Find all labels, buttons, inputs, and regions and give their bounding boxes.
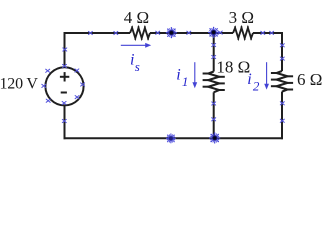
handle marks left branch	[63, 48, 67, 51]
current arrow i_s	[121, 43, 151, 48]
wire right-bottom	[281, 92, 283, 140]
svg-text:1: 1	[182, 74, 189, 89]
handle marks right branch	[280, 44, 284, 47]
current arrow i_1	[192, 62, 197, 88]
resistor R3 18-ohm (vertical zigzag with side bars)	[203, 72, 225, 93]
wire middle branch top	[213, 32, 215, 72]
node B (top at 18-ohm branch)	[208, 27, 219, 38]
node A (top between 4-ohm and 18-ohm)	[166, 27, 177, 38]
handle marks middle branch	[212, 43, 216, 46]
plus sign	[60, 72, 69, 81]
minus sign	[61, 92, 67, 94]
svg-text:18 Ω: 18 Ω	[216, 57, 250, 76]
wire bottom rail	[64, 137, 284, 139]
svg-text:2: 2	[253, 79, 260, 94]
resistor R4 6-ohm (vertical zigzag with side bars)	[271, 71, 293, 92]
svg-text:6 Ω: 6 Ω	[297, 70, 322, 89]
wire top-left: corner to 4-ohm	[65, 33, 131, 67]
wire middle branch bottom	[213, 92, 215, 138]
svg-text:s: s	[135, 59, 140, 74]
resistor R1 4-ohm (horizontal zigzag)	[130, 26, 150, 40]
svg-text:4 Ω: 4 Ω	[124, 8, 149, 27]
current arrow i_2	[264, 62, 269, 89]
handle marks around source circle	[63, 64, 67, 67]
wire top-middle: 4-ohm to 3-ohm	[150, 32, 233, 34]
wire handle marks (blue x) top rail	[88, 31, 92, 34]
wire left-bottom: source to bottom rail	[64, 105, 66, 139]
node D (bottom at 18-ohm branch)	[209, 132, 220, 143]
node C (bottom left junction)	[166, 133, 176, 143]
svg-text:i: i	[247, 71, 251, 88]
voltage source 120V circle	[45, 67, 83, 105]
resistor R2 3-ohm (horizontal zigzag)	[233, 26, 253, 40]
wire top-right: 3-ohm to right corner	[253, 33, 282, 71]
svg-text:120 V: 120 V	[0, 75, 38, 92]
svg-text:3 Ω: 3 Ω	[229, 8, 254, 27]
svg-text:i: i	[176, 66, 180, 83]
